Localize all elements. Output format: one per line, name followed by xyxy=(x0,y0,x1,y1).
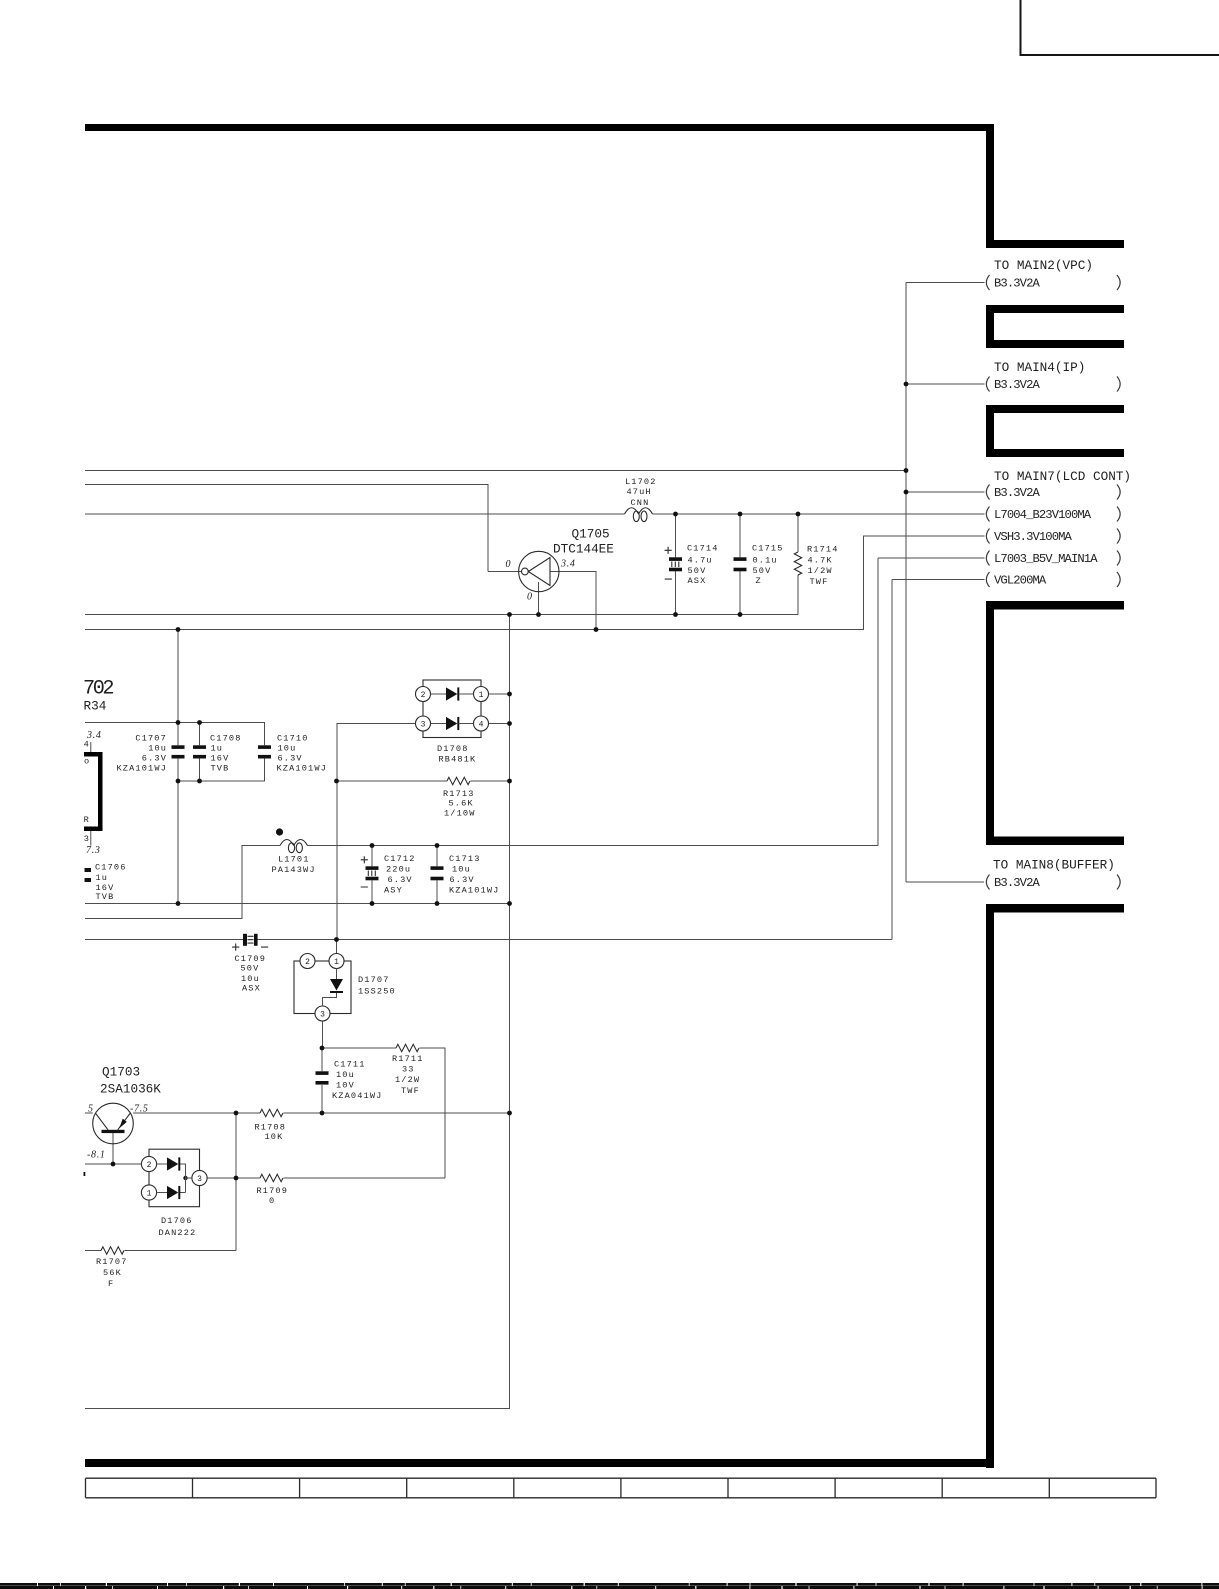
svg-text:3: 3 xyxy=(320,1010,325,1019)
svg-text:2: 2 xyxy=(147,1161,152,1170)
svg-text:4: 4 xyxy=(479,720,484,729)
svg-text:Q1703: Q1703 xyxy=(102,1065,140,1080)
svg-text:ASY: ASY xyxy=(384,886,403,896)
svg-text:R34: R34 xyxy=(84,698,107,713)
svg-text:10u: 10u xyxy=(278,744,297,754)
svg-text:1/2W: 1/2W xyxy=(808,566,833,576)
svg-text:16V: 16V xyxy=(211,754,230,764)
svg-text:F: F xyxy=(108,1279,114,1289)
svg-text:0: 0 xyxy=(527,592,533,603)
svg-text:C1712: C1712 xyxy=(384,854,416,864)
svg-text:C1713: C1713 xyxy=(449,854,481,864)
svg-text:10u: 10u xyxy=(452,865,471,875)
svg-text:ASX: ASX xyxy=(242,984,261,994)
svg-text:C1708: C1708 xyxy=(210,734,242,744)
svg-text:C1715: C1715 xyxy=(752,544,784,554)
svg-text:Z: Z xyxy=(756,576,762,586)
svg-text:R: R xyxy=(84,815,90,825)
svg-text:RB481K: RB481K xyxy=(439,754,477,764)
svg-text:10u: 10u xyxy=(336,1070,355,1080)
svg-text:C1711: C1711 xyxy=(334,1060,366,1070)
svg-text:1SS250: 1SS250 xyxy=(358,987,396,997)
svg-text:D1707: D1707 xyxy=(358,975,390,985)
svg-text:1: 1 xyxy=(479,691,484,700)
svg-text:TO MAIN4(IP): TO MAIN4(IP) xyxy=(994,360,1085,375)
svg-text:R1707: R1707 xyxy=(96,1257,128,1267)
svg-text:4: 4 xyxy=(84,739,90,749)
svg-text:3: 3 xyxy=(84,834,90,844)
svg-text:3.4: 3.4 xyxy=(560,559,576,570)
svg-text:C1710: C1710 xyxy=(277,734,309,744)
svg-text:1: 1 xyxy=(334,958,339,967)
svg-text:B3.3V2A: B3.3V2A xyxy=(994,276,1040,290)
svg-text:1/2W: 1/2W xyxy=(395,1075,420,1085)
svg-text:4.7K: 4.7K xyxy=(808,556,833,566)
svg-text:220u: 220u xyxy=(386,865,411,875)
svg-text:KZA101WJ: KZA101WJ xyxy=(277,764,327,774)
svg-text:47uH: 47uH xyxy=(627,487,652,497)
svg-text:DAN222: DAN222 xyxy=(159,1228,197,1238)
svg-text:50V: 50V xyxy=(241,964,260,974)
svg-text:7.3: 7.3 xyxy=(86,845,101,856)
svg-text:1u: 1u xyxy=(96,873,109,883)
svg-text:R1714: R1714 xyxy=(807,545,839,555)
svg-text:5.6K: 5.6K xyxy=(449,799,474,809)
svg-text:33: 33 xyxy=(402,1065,415,1075)
svg-text:C1707: C1707 xyxy=(135,734,167,744)
svg-text:1: 1 xyxy=(147,1189,152,1198)
svg-text:6.3V: 6.3V xyxy=(142,754,167,764)
svg-text:0.1u: 0.1u xyxy=(753,556,778,566)
svg-text:KZA041WJ: KZA041WJ xyxy=(332,1091,382,1101)
svg-text:TWF: TWF xyxy=(810,577,829,587)
svg-text:TO MAIN2(VPC): TO MAIN2(VPC) xyxy=(994,258,1093,273)
svg-text:B3.3V2A: B3.3V2A xyxy=(994,378,1040,392)
svg-text:10u: 10u xyxy=(148,744,167,754)
svg-text:TVB: TVB xyxy=(96,892,115,902)
svg-text:2: 2 xyxy=(421,691,426,700)
svg-text:1u: 1u xyxy=(211,744,224,754)
svg-text:0: 0 xyxy=(269,1196,275,1206)
svg-text:C1709: C1709 xyxy=(235,954,267,964)
svg-text:6.3V: 6.3V xyxy=(278,754,303,764)
svg-text:0: 0 xyxy=(506,559,512,570)
svg-text:L7004_B23V100MA: L7004_B23V100MA xyxy=(994,508,1092,522)
svg-text:56K: 56K xyxy=(103,1268,122,1278)
svg-text:2SA1036K: 2SA1036K xyxy=(100,1082,161,1097)
svg-text:DTC144EE: DTC144EE xyxy=(553,541,614,556)
svg-text:B3.3V2A: B3.3V2A xyxy=(994,486,1040,500)
svg-text:10K: 10K xyxy=(265,1132,284,1142)
svg-text:TO MAIN7(LCD CONT): TO MAIN7(LCD CONT) xyxy=(994,469,1131,484)
svg-text:TVB: TVB xyxy=(211,764,230,774)
svg-text:C1706: C1706 xyxy=(95,862,127,872)
svg-text:5: 5 xyxy=(88,1103,94,1114)
svg-text:D1708: D1708 xyxy=(437,744,469,754)
svg-text:-7.5: -7.5 xyxy=(130,1103,149,1114)
svg-text:6.3V: 6.3V xyxy=(450,875,475,885)
svg-text:2: 2 xyxy=(305,958,310,967)
svg-text:KZA101WJ: KZA101WJ xyxy=(449,886,499,896)
svg-text:6.3V: 6.3V xyxy=(388,875,413,885)
svg-text:3: 3 xyxy=(197,1175,202,1184)
svg-text:R1711: R1711 xyxy=(392,1054,424,1064)
svg-text:L1702: L1702 xyxy=(625,477,657,487)
svg-text:ASX: ASX xyxy=(688,576,707,586)
svg-text:L1701: L1701 xyxy=(278,855,310,865)
svg-text:-8.1: -8.1 xyxy=(87,1150,106,1161)
svg-text:R1713: R1713 xyxy=(443,789,475,799)
svg-text:10V: 10V xyxy=(336,1081,355,1091)
svg-text:VSH3.3V100MA: VSH3.3V100MA xyxy=(994,530,1073,544)
svg-text:CNN: CNN xyxy=(631,498,650,508)
svg-text:50V: 50V xyxy=(753,566,772,576)
svg-text:VGL200MA: VGL200MA xyxy=(994,573,1047,587)
svg-text:TO MAIN8(BUFFER): TO MAIN8(BUFFER) xyxy=(993,858,1115,873)
svg-text:1/10W: 1/10W xyxy=(444,809,476,819)
svg-text:702: 702 xyxy=(83,677,113,700)
svg-text:L7003_B5V_MAIN1A: L7003_B5V_MAIN1A xyxy=(994,552,1098,566)
svg-text:o: o xyxy=(84,757,90,767)
svg-text:10u: 10u xyxy=(241,974,260,984)
svg-text:B3.3V2A: B3.3V2A xyxy=(994,876,1040,890)
svg-text:4.7u: 4.7u xyxy=(688,556,713,566)
svg-text:R1708: R1708 xyxy=(255,1122,287,1132)
svg-text:D1706: D1706 xyxy=(161,1216,193,1226)
svg-text:TWF: TWF xyxy=(401,1086,420,1096)
svg-text:KZA101WJ: KZA101WJ xyxy=(117,764,167,774)
svg-text:3: 3 xyxy=(421,720,426,729)
svg-text:R1709: R1709 xyxy=(257,1186,289,1196)
svg-text:50V: 50V xyxy=(688,566,707,576)
svg-text:PA143WJ: PA143WJ xyxy=(272,865,316,875)
svg-text:C1714: C1714 xyxy=(687,544,719,554)
svg-text:Q1705: Q1705 xyxy=(572,527,610,542)
